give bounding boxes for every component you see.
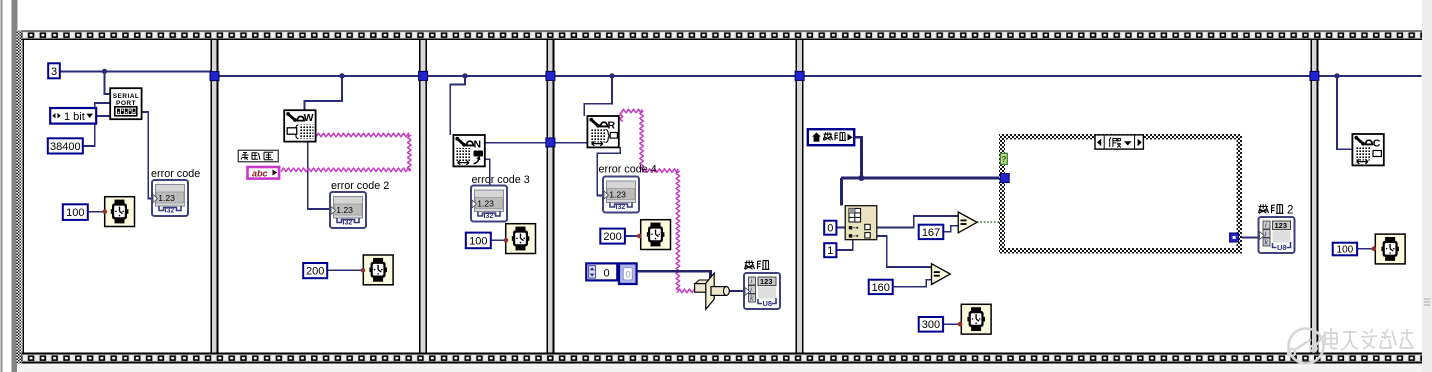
case structure border bbox=[999, 134, 1242, 254]
frame separator S2 bbox=[419, 40, 427, 352]
indicator error code (I32) bbox=[152, 180, 188, 216]
sequence left checkered border bbox=[17, 31, 22, 164]
VI bytes at serial port (N) bbox=[453, 135, 484, 166]
svg-text:error code 2: error code 2 bbox=[331, 180, 389, 192]
constant 100 bbox=[466, 233, 491, 249]
wire node to array indicator bbox=[729, 290, 744, 292]
indicator error code 3 (I32) bbox=[471, 186, 507, 222]
constant 160 bbox=[869, 280, 893, 294]
tunnel S2 bbox=[419, 71, 428, 80]
VI serial close (C) bbox=[1352, 134, 1383, 165]
right scrollbar strip bbox=[1422, 0, 1432, 372]
wire 1 bit to serial port bbox=[97, 115, 111, 117]
wire branch to bytes-at-port VI bbox=[450, 76, 465, 135]
constant 1 bbox=[824, 243, 836, 257]
indicator error code 2 (I32) bbox=[330, 192, 366, 228]
constant 0 bbox=[824, 221, 836, 235]
wire error out down into indicator 3 bbox=[485, 159, 490, 185]
frame 0 content left border bbox=[23, 40, 25, 352]
svg-text:2: 2 bbox=[1287, 205, 1293, 217]
sequence top film border bbox=[17, 31, 1422, 32]
wire main sequence numeric wire frames 1-5 bbox=[218, 75, 1421, 77]
watermark text 电子发烧友 bbox=[1325, 328, 1414, 350]
constant 300 bbox=[919, 317, 943, 332]
tunnel S4 bbox=[795, 71, 804, 80]
indicator error code 4 (I32) bbox=[603, 177, 639, 213]
svg-text:C: C bbox=[1373, 138, 1381, 150]
local variable 数组 bbox=[808, 129, 854, 145]
enum constant 1 bit bbox=[50, 108, 96, 124]
wire 167 to comparator 1 bbox=[944, 226, 958, 232]
wire branch to serial port init bbox=[105, 71, 111, 94]
tunnel S3 byte count bbox=[546, 138, 555, 147]
svg-text:0: 0 bbox=[827, 223, 833, 235]
wire 100 to wait bbox=[1357, 248, 1373, 250]
frame separator S1 bbox=[210, 40, 218, 352]
coercion dot frame5 bbox=[1372, 246, 1377, 251]
wire 100 to wait bbox=[491, 239, 505, 241]
wire boolean to case selector (dotted green) bbox=[977, 221, 1000, 223]
area under sequence bottom bbox=[17, 363, 1422, 372]
function index array bbox=[845, 206, 877, 240]
wire 200 to wait bbox=[327, 269, 363, 271]
svg-text:200: 200 bbox=[603, 231, 621, 243]
frame separator S3 bbox=[546, 40, 554, 352]
function wait ms frame0 bbox=[105, 197, 135, 227]
tunnel S1 bbox=[210, 72, 219, 81]
wire element1 to comparator 2 bbox=[877, 236, 931, 267]
node junction frame2 bbox=[462, 73, 467, 78]
node junction frame1 bbox=[339, 73, 344, 78]
wire main sequence numeric wire frame0 bbox=[60, 70, 211, 72]
wire branch to serial read VI bbox=[584, 76, 612, 116]
constant 100 bbox=[63, 204, 88, 220]
node byte array to string (fan) bbox=[695, 273, 730, 309]
svg-text:error code 4: error code 4 bbox=[599, 163, 657, 175]
svg-text:200: 200 bbox=[306, 265, 324, 277]
label 数组 bbox=[745, 260, 770, 269]
case selector label 假 bbox=[1095, 135, 1143, 149]
svg-text:100: 100 bbox=[469, 235, 487, 247]
svg-text:abc: abc bbox=[252, 168, 268, 178]
svg-text:1 bit: 1 bit bbox=[64, 111, 85, 123]
svg-text:38400: 38400 bbox=[50, 141, 81, 153]
svg-text:error code 3: error code 3 bbox=[472, 174, 530, 186]
scrollbar grip bbox=[1424, 299, 1431, 305]
wire 100 to wait bbox=[88, 211, 104, 213]
string constant abc bbox=[248, 167, 280, 179]
window left thin divider line bbox=[1, 0, 3, 372]
svg-text:SERIAL: SERIAL bbox=[113, 93, 140, 100]
wire array to byte-array-to-string node (thick) bbox=[637, 271, 711, 284]
function wait ms frame1 bbox=[363, 255, 393, 285]
sequence tunnels on separators bbox=[210, 71, 1319, 146]
tunnel S5 bbox=[1310, 71, 1319, 80]
svg-text:167: 167 bbox=[922, 227, 940, 239]
VI serial port read (R) bbox=[587, 116, 618, 147]
coercion dot frame2 bbox=[504, 238, 509, 243]
tunnel S3 bbox=[546, 71, 555, 80]
coercion dot frame0 bbox=[103, 209, 108, 214]
constant 200 bbox=[600, 229, 625, 244]
constant 167 bbox=[919, 225, 944, 239]
svg-text:0: 0 bbox=[604, 267, 610, 279]
svg-text:W: W bbox=[304, 112, 314, 124]
window left gray bar bbox=[12, 0, 18, 372]
constant 200 bbox=[303, 263, 327, 278]
wire serial port error out to indicator bbox=[142, 112, 152, 199]
frame separator S4 bbox=[796, 40, 804, 352]
VI SERIAL PORT init bbox=[110, 88, 141, 119]
svg-text:300: 300 bbox=[922, 319, 940, 331]
indicator array 数组 (U8) bbox=[744, 273, 780, 309]
watermark logo circle bbox=[1288, 329, 1326, 364]
tunnel case output bbox=[1230, 233, 1239, 242]
wire serial write error to indicator 2 bbox=[308, 142, 330, 209]
numeric terminal small 0 box bbox=[619, 263, 637, 284]
coercion dot frame4 bbox=[958, 322, 963, 327]
wire element0 to comparator 1 bbox=[877, 216, 958, 228]
node junction frame5 bbox=[1334, 73, 1339, 78]
case selector terminal ? bbox=[1000, 153, 1007, 164]
label 数组 2 bbox=[1259, 204, 1294, 216]
wire error out to indicator 4 bbox=[597, 147, 620, 196]
coercion dot frame3 bbox=[637, 234, 642, 239]
function wait ms frame3 bbox=[641, 220, 671, 250]
label 发送区 bbox=[238, 150, 278, 162]
numeric control 0 with spinner bbox=[586, 263, 617, 280]
svg-text:100: 100 bbox=[66, 207, 84, 219]
wire byte count to tunnel and into frame 3 bbox=[485, 142, 588, 144]
wire array local to case tunnel and index array (thick) bbox=[841, 137, 1001, 205]
indicator array 数组 2 (U8) bbox=[1259, 217, 1295, 253]
wire case out to array indicator 2 bbox=[1239, 237, 1259, 239]
svg-text:R: R bbox=[608, 120, 616, 132]
svg-text:100: 100 bbox=[1337, 245, 1354, 256]
wire 1 to index array bbox=[837, 240, 853, 250]
node junction frame3 bbox=[609, 73, 614, 78]
sequence bottom film border bbox=[17, 353, 1422, 355]
wire 300 to wait bbox=[943, 323, 960, 325]
wire branch to serial close VI bbox=[1337, 76, 1352, 149]
node junction array wire bbox=[858, 175, 864, 181]
function wait ms frame4 bbox=[961, 304, 991, 334]
svg-text:1: 1 bbox=[827, 245, 833, 257]
wire branch to serial write bbox=[305, 76, 343, 110]
wire 38400 to serial port (runs under 1 bit box) bbox=[83, 103, 110, 146]
wire 0 to index array bbox=[837, 227, 846, 229]
frame separator S5 bbox=[1310, 40, 1318, 352]
svg-text:?: ? bbox=[1001, 154, 1006, 164]
constant 3 bbox=[48, 63, 60, 78]
function wait ms frame2 bbox=[506, 224, 536, 254]
coercion dot frame1 bbox=[361, 268, 366, 273]
svg-text:0: 0 bbox=[626, 269, 631, 280]
svg-text:160: 160 bbox=[872, 282, 890, 294]
function wait ms frame5 bbox=[1375, 234, 1405, 264]
svg-text:error code: error code bbox=[151, 168, 200, 180]
tunnel case input (array) bbox=[1000, 174, 1009, 183]
svg-text:PORT: PORT bbox=[116, 100, 136, 107]
constant 100 bbox=[1333, 243, 1357, 256]
svg-text:N: N bbox=[474, 139, 482, 151]
wire 200 to wait bbox=[625, 235, 638, 237]
wire string abc to serial write (pink squiggle loop) bbox=[281, 133, 411, 171]
function equal? comparator 2 bbox=[932, 264, 951, 285]
VI serial port write bbox=[284, 110, 315, 141]
wire 160 to comparator 2 bbox=[893, 280, 931, 287]
constant 38400 bbox=[48, 138, 83, 153]
wire string data from read VI to byte-array node (pink squiggle) bbox=[620, 109, 695, 293]
svg-text:3: 3 bbox=[51, 66, 57, 78]
function equal? comparator 1 bbox=[958, 212, 977, 233]
node junction frame0 bbox=[102, 69, 107, 74]
